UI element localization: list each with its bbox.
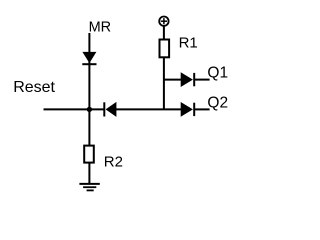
resistor R1 [160, 40, 170, 58]
wire: vertical from power terminal to main net [163, 26, 165, 110]
wire: main horizontal net, middle segment [116, 108, 182, 110]
ground [79, 184, 99, 191]
svg-text:R2: R2 [104, 154, 123, 171]
svg-text:Q1: Q1 [207, 65, 228, 82]
diode Q2 (pointing right) [181, 102, 195, 117]
power terminal +V [159, 17, 168, 26]
wire: vertical from Reset node down to ground [88, 109, 90, 184]
resistor R2 [84, 146, 94, 163]
svg-text:Q2: Q2 [207, 95, 228, 112]
diode (pointing left) on main net [104, 102, 116, 117]
wire: vertical from MR label down to Reset node [88, 33, 90, 109]
svg-text:MR: MR [89, 19, 112, 35]
diode MR (pointing down) [82, 52, 96, 64]
junction dot at Reset node [87, 107, 92, 112]
wire: from Q1 cathode to label [194, 79, 209, 81]
diode Q1 (pointing right) [181, 72, 195, 87]
wire: Q1 branch from vertical net [164, 79, 182, 81]
svg-text:Reset: Reset [13, 79, 55, 96]
svg-text:R1: R1 [179, 34, 198, 51]
wire: main horizontal net, right segment to Q2 [194, 108, 209, 110]
wire: main horizontal net, left segment [44, 108, 105, 110]
